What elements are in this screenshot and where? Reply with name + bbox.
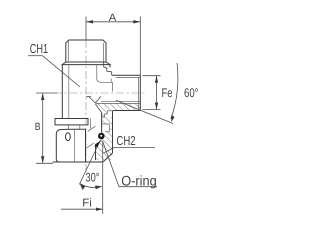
dimension B (36, 93, 57, 163)
60 degree arc (171, 63, 178, 119)
lock nut (56, 129, 85, 162)
nut face line (74, 129, 76, 162)
svg-text:CH1: CH1 (30, 41, 48, 56)
hex inner corner lines (68, 65, 70, 119)
male stud thread outline (66, 40, 106, 62)
vertical centerline (85, 40, 87, 172)
side port outline (112, 75, 141, 110)
stud between washer and nut (69, 125, 80, 129)
hex body CH1 (62, 62, 110, 119)
section hatch L-region (95, 103, 140, 160)
down port bore wall (96, 111, 113, 163)
dimension A (86, 17, 140, 76)
sparse hatch left strip (86, 126, 95, 148)
svg-text:Fi: Fi (82, 198, 92, 210)
notch edges (102, 111, 113, 132)
leader arrow to O-ring groove (94, 141, 100, 148)
side port bore lower wall (101, 100, 141, 102)
svg-text:B: B (35, 121, 41, 133)
30 degree annotation (79, 140, 102, 214)
O-ring label (103, 141, 158, 187)
white notch in wall (107, 111, 112, 117)
bottom face (53, 161, 103, 163)
horizontal centerline (54, 92, 146, 94)
svg-text:CH2: CH2 (116, 133, 135, 148)
svg-text:A: A (109, 12, 117, 24)
thread undercut fillet (97, 65, 113, 92)
svg-text:Fe: Fe (162, 86, 173, 100)
svg-text:30°: 30° (86, 171, 100, 185)
O-ring section dot (98, 133, 105, 140)
60 degree cone line (116, 100, 173, 123)
washer (55, 119, 88, 125)
dimension Fe (143, 76, 161, 110)
svg-text:O-ring: O-ring (121, 173, 157, 189)
down port cone boundary (86, 96, 102, 112)
body step to side port (104, 62, 112, 75)
svg-text:60°: 60° (184, 86, 199, 100)
side port thread lines (95, 77, 140, 109)
dimension Fi (61, 208, 103, 210)
stud thread lines (68, 42, 103, 63)
